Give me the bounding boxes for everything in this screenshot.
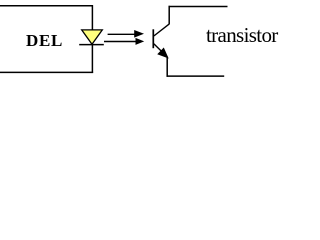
wire LED cathode vertical xyxy=(91,45,93,73)
label DEL xyxy=(26,32,63,49)
LED D1 (yellow triangle) xyxy=(82,30,103,44)
transistor Q1 base bar xyxy=(152,29,154,48)
wire collector top horizontal xyxy=(169,6,228,8)
light arrow 1 (upper) xyxy=(108,30,144,38)
transistor Q1 collector diagonal xyxy=(154,24,170,36)
light arrow 2 (lower) xyxy=(104,38,144,45)
transistor Q1 emitter diagonal xyxy=(154,44,164,54)
LED cathode bar xyxy=(79,44,104,46)
wire emitter bottom horizontal xyxy=(167,75,225,77)
wire bottom-left horizontal xyxy=(0,71,93,73)
transistor Q1 emitter arrowhead xyxy=(158,49,167,58)
wire LED anode vertical xyxy=(91,5,93,30)
wire collector vertical xyxy=(168,6,170,24)
label transistor xyxy=(206,25,278,46)
wire top-left horizontal xyxy=(0,5,93,7)
wire emitter vertical xyxy=(166,57,168,77)
